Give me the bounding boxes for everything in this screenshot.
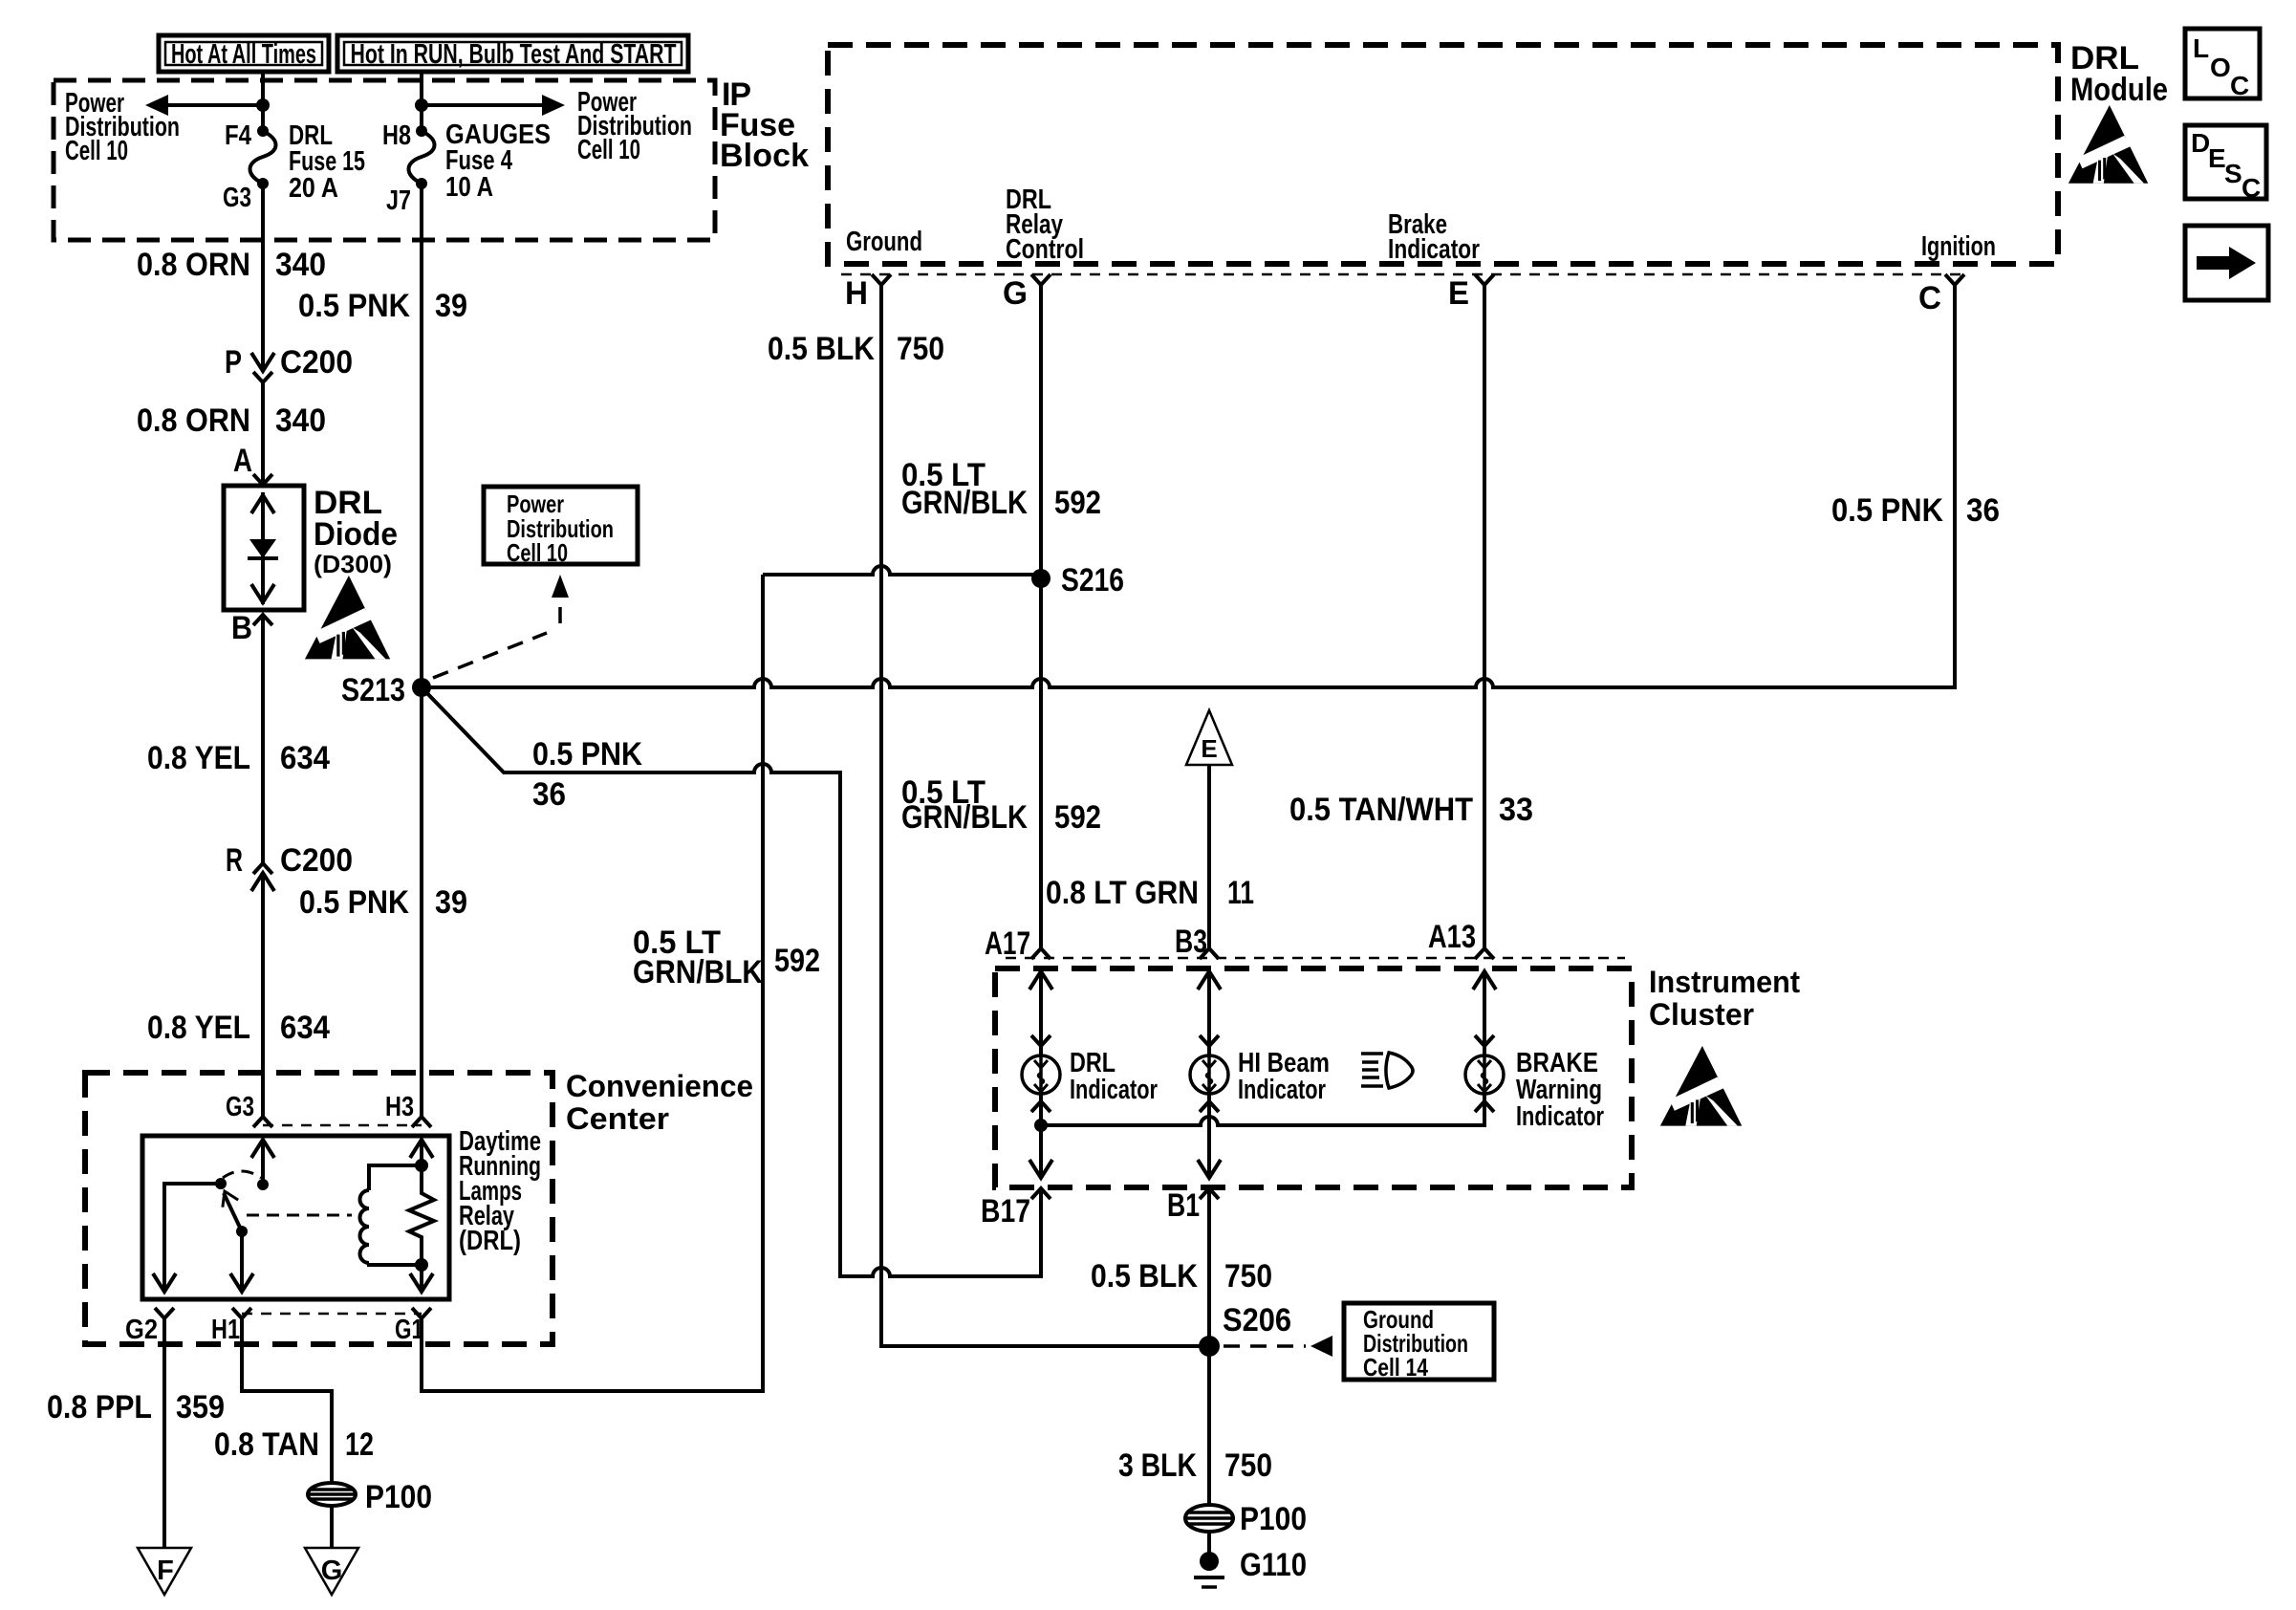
svg-text:0.8 TAN: 0.8 TAN [214,1426,319,1463]
svg-text:O: O [2210,53,2231,82]
svg-text:0.5 TAN/WHT: 0.5 TAN/WHT [1289,792,1473,828]
svg-text:10 A: 10 A [445,172,493,203]
svg-text:3 BLK: 3 BLK [1118,1447,1197,1484]
svg-text:750: 750 [897,331,944,367]
svg-text:C200: C200 [280,842,353,879]
svg-text:A13: A13 [1428,919,1476,955]
svg-text:C: C [2230,71,2249,100]
svg-text:P100: P100 [1240,1501,1307,1537]
svg-text:H8: H8 [382,120,411,151]
svg-text:0.5 PNK: 0.5 PNK [298,288,410,324]
svg-text:Cell 10: Cell 10 [65,136,128,166]
svg-text:S216: S216 [1061,562,1124,598]
svg-text:G1: G1 [395,1315,423,1345]
svg-text:750: 750 [1224,1258,1272,1295]
svg-text:0.8 ORN: 0.8 ORN [137,402,250,439]
svg-text:20 A: 20 A [289,173,338,204]
svg-text:Ignition: Ignition [1921,231,1996,262]
svg-text:0.8 YEL: 0.8 YEL [147,740,250,776]
svg-text:G3: G3 [223,183,251,213]
svg-text:0.5 PNK: 0.5 PNK [299,884,409,921]
svg-text:0.5 BLK: 0.5 BLK [1091,1258,1198,1295]
svg-text:(D300): (D300) [314,550,392,578]
svg-text:Cell 10: Cell 10 [507,538,568,567]
svg-text:Center: Center [566,1101,669,1136]
svg-text:Cell 10: Cell 10 [577,135,640,165]
svg-text:(DRL): (DRL) [459,1226,521,1256]
svg-text:39: 39 [435,884,467,921]
svg-text:P100: P100 [365,1479,432,1515]
svg-text:Diode: Diode [314,516,398,553]
svg-text:E: E [1201,734,1217,763]
svg-text:H1: H1 [211,1315,240,1345]
svg-text:Convenience: Convenience [566,1069,753,1103]
svg-text:Hot In RUN, Bulb Test And STAR: Hot In RUN, Bulb Test And START [351,39,677,70]
svg-text:12: 12 [345,1426,374,1463]
svg-text:Indicator: Indicator [1070,1075,1158,1105]
svg-text:L: L [2193,33,2209,63]
svg-text:P: P [225,344,242,381]
svg-text:0.5 PNK: 0.5 PNK [532,736,642,772]
svg-text:592: 592 [774,943,820,979]
svg-text:J7: J7 [386,185,411,216]
svg-text:C: C [2242,173,2261,203]
svg-text:Control: Control [1006,234,1084,265]
svg-text:33: 33 [1499,792,1533,828]
svg-text:Cluster: Cluster [1649,997,1754,1032]
svg-text:36: 36 [1966,492,2000,529]
svg-text:Block: Block [720,138,809,174]
svg-text:F: F [157,1556,174,1586]
svg-text:E: E [2208,143,2226,173]
svg-text:S206: S206 [1223,1302,1291,1338]
svg-text:Ground: Ground [846,227,922,257]
svg-text:36: 36 [532,776,566,813]
svg-text:39: 39 [435,288,467,324]
svg-text:0.8 YEL: 0.8 YEL [147,1010,250,1046]
svg-text:359: 359 [176,1389,225,1425]
svg-text:G: G [321,1556,343,1586]
svg-text:Hot At All Times: Hot At All Times [171,39,316,70]
svg-text:Indicator: Indicator [1388,234,1480,265]
svg-text:S213: S213 [341,672,405,708]
svg-text:B: B [231,610,252,646]
svg-text:Module: Module [2070,72,2168,108]
svg-text:Indicator: Indicator [1238,1075,1326,1105]
svg-text:592: 592 [1054,485,1101,521]
svg-text:G: G [1003,275,1028,312]
svg-text:H3: H3 [385,1092,414,1122]
svg-text:0.8 LT GRN: 0.8 LT GRN [1046,875,1199,911]
svg-text:0.5 PNK: 0.5 PNK [1831,492,1943,529]
svg-text:A: A [233,443,252,479]
svg-text:GRN/BLK: GRN/BLK [901,485,1028,521]
svg-text:R: R [226,842,243,879]
svg-text:GRN/BLK: GRN/BLK [901,799,1028,836]
svg-text:340: 340 [275,402,326,439]
svg-text:592: 592 [1054,799,1101,836]
svg-text:Instrument: Instrument [1649,965,1800,999]
svg-text:634: 634 [280,740,330,776]
svg-text:0.8 ORN: 0.8 ORN [137,247,250,283]
svg-text:G2: G2 [125,1315,158,1345]
svg-text:750: 750 [1224,1447,1272,1484]
svg-text:S: S [2224,159,2242,188]
svg-text:11: 11 [1227,875,1254,911]
svg-text:Cell 14: Cell 14 [1363,1353,1428,1382]
svg-text:F4: F4 [225,120,251,151]
svg-text:340: 340 [275,247,326,283]
svg-text:C: C [1918,280,1941,316]
svg-text:B1: B1 [1167,1187,1200,1224]
svg-text:Indicator: Indicator [1516,1101,1604,1132]
svg-text:0.8 PPL: 0.8 PPL [47,1389,152,1425]
svg-text:B3: B3 [1175,924,1207,960]
svg-text:B17: B17 [981,1193,1030,1229]
svg-text:E: E [1448,275,1469,312]
svg-text:G3: G3 [226,1092,254,1122]
svg-text:GRN/BLK: GRN/BLK [633,954,763,990]
svg-text:A17: A17 [985,925,1030,962]
svg-text:C200: C200 [280,344,353,381]
svg-text:634: 634 [280,1010,330,1046]
svg-text:G110: G110 [1240,1547,1307,1583]
svg-text:0.5 BLK: 0.5 BLK [768,331,875,367]
svg-text:H: H [845,275,868,312]
